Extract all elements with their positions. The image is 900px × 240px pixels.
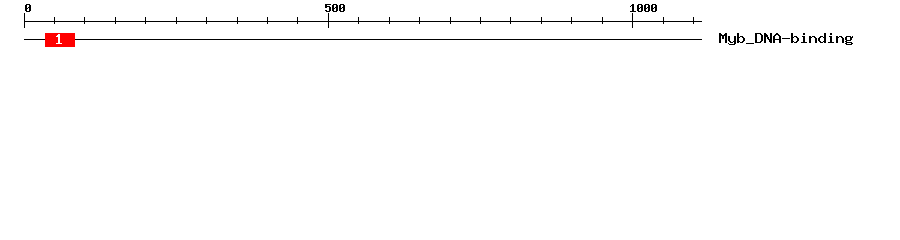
ruler minor tick 700	[450, 17, 451, 24]
ruler minor tick 300	[206, 17, 207, 24]
ruler minor tick 900	[571, 17, 572, 24]
ruler major tick 0	[24, 13, 25, 28]
ruler minor tick 550	[358, 17, 359, 24]
ruler minor tick 50	[54, 17, 55, 24]
ruler minor tick 100	[84, 17, 85, 24]
ruler minor tick 950	[602, 17, 603, 24]
ruler minor tick 250	[176, 17, 177, 24]
ruler minor tick 750	[480, 17, 481, 24]
ruler minor tick 150	[115, 17, 116, 24]
domain number label 1	[56, 34, 62, 44]
ruler label 500	[325, 4, 345, 12]
domain box (red, hit 1)	[45, 33, 75, 47]
ruler minor tick 850	[541, 17, 542, 24]
ruler scale line	[24, 21, 702, 22]
ruler minor tick 1100	[693, 17, 694, 24]
domain name label Myb_DNA-binding	[719, 33, 853, 45]
ruler minor tick 650	[419, 17, 420, 24]
protein backbone line	[24, 39, 702, 40]
ruler label 1000	[630, 4, 657, 12]
ruler minor tick 450	[297, 17, 298, 24]
ruler minor tick 400	[267, 17, 268, 24]
ruler minor tick 600	[389, 17, 390, 24]
ruler minor tick 350	[237, 17, 238, 24]
ruler minor tick 200	[145, 17, 146, 24]
ruler minor tick 1050	[663, 17, 664, 24]
ruler major tick 500	[328, 13, 329, 28]
ruler minor tick 800	[510, 17, 511, 24]
ruler major tick 1000	[632, 13, 633, 28]
ruler label 0	[25, 4, 31, 12]
